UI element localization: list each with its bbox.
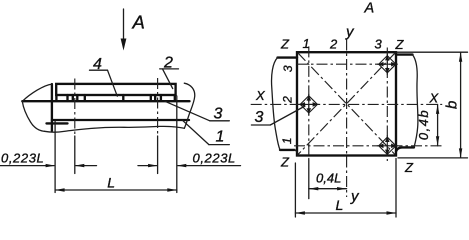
centerline right support bbox=[157, 78, 159, 136]
bar right portion bottom edge with fillet bbox=[396, 147, 414, 151]
bar right portion top edge bbox=[396, 53, 413, 55]
svg-text:Z: Z bbox=[395, 37, 405, 52]
extension line left (plate edge) bbox=[54, 121, 56, 193]
column 3 centerline bbox=[386, 48, 388, 162]
dimension 0,4b bbox=[416, 104, 439, 145]
svg-text:X: X bbox=[429, 91, 440, 106]
dimension L (right view) bbox=[295, 159, 396, 218]
x axis centerline bbox=[251, 103, 443, 105]
svg-text:3: 3 bbox=[255, 109, 264, 126]
measurement point symbol (bottom right, point 3-1) bbox=[377, 135, 398, 156]
pads row under plate bbox=[56, 95, 174, 101]
measurement point symbol (top right, point 3-3) bbox=[377, 54, 398, 75]
svg-text:0,4L: 0,4L bbox=[316, 171, 341, 186]
beam top edge bbox=[22, 100, 189, 102]
plate item 2 (side view) bbox=[56, 84, 175, 95]
dimension 0,223L right bbox=[138, 151, 241, 168]
centerline left support bbox=[74, 79, 76, 137]
plate square bbox=[297, 52, 396, 155]
dimension 0,4L bbox=[309, 171, 347, 191]
svg-text:L: L bbox=[336, 197, 344, 213]
bar left break arc bbox=[272, 58, 280, 150]
svg-text:1: 1 bbox=[280, 137, 294, 144]
row 1 centerline bbox=[294, 145, 442, 147]
dimension b bbox=[396, 52, 468, 158]
view arrow A bbox=[121, 9, 127, 51]
bar right break arc bbox=[413, 55, 418, 148]
bar left portion bottom edge bbox=[280, 149, 295, 151]
dimension 0,223L left bbox=[0, 151, 97, 168]
measurement point symbol (left, point 2-1) bbox=[298, 94, 319, 115]
row 3 centerline bbox=[297, 63, 396, 65]
svg-text:Z: Z bbox=[280, 155, 290, 170]
bottom wavy break line bbox=[45, 126, 185, 132]
svg-text:0,223L: 0,223L bbox=[193, 151, 236, 166]
left break wedge outline bbox=[22, 84, 52, 131]
diagonal centerline 2 bbox=[298, 53, 395, 155]
svg-text:1: 1 bbox=[216, 129, 225, 146]
short lower edge line at left end bbox=[47, 122, 68, 124]
svg-text:Z: Z bbox=[404, 160, 414, 175]
svg-text:3: 3 bbox=[281, 65, 295, 72]
y axis centerline bbox=[346, 40, 348, 198]
svg-text:2: 2 bbox=[281, 96, 295, 104]
svg-text:0,4b: 0,4b bbox=[416, 109, 431, 140]
bar left bottom fillet bbox=[295, 150, 299, 156]
beam left end vertical bbox=[51, 84, 53, 131]
svg-text:3: 3 bbox=[375, 37, 383, 52]
svg-text:2: 2 bbox=[329, 37, 338, 52]
svg-text:0,223L: 0,223L bbox=[1, 151, 44, 166]
svg-text:3: 3 bbox=[214, 106, 223, 123]
svg-text:A: A bbox=[364, 1, 375, 17]
beam bottom edge bbox=[52, 119, 189, 121]
bar left portion top edge bbox=[278, 56, 298, 58]
diagonal centerline 1 bbox=[298, 53, 395, 155]
svg-text:A: A bbox=[132, 11, 145, 32]
svg-text:Z: Z bbox=[280, 37, 290, 52]
svg-text:X: X bbox=[255, 88, 266, 103]
right break curve bbox=[184, 83, 194, 128]
column 1 centerline bbox=[308, 46, 310, 160]
extension line right (plate edge) bbox=[176, 96, 178, 193]
dimension L (left view) bbox=[55, 175, 177, 192]
svg-text:b: b bbox=[444, 101, 461, 109]
svg-text:L: L bbox=[107, 175, 115, 191]
svg-text:1: 1 bbox=[303, 36, 310, 51]
